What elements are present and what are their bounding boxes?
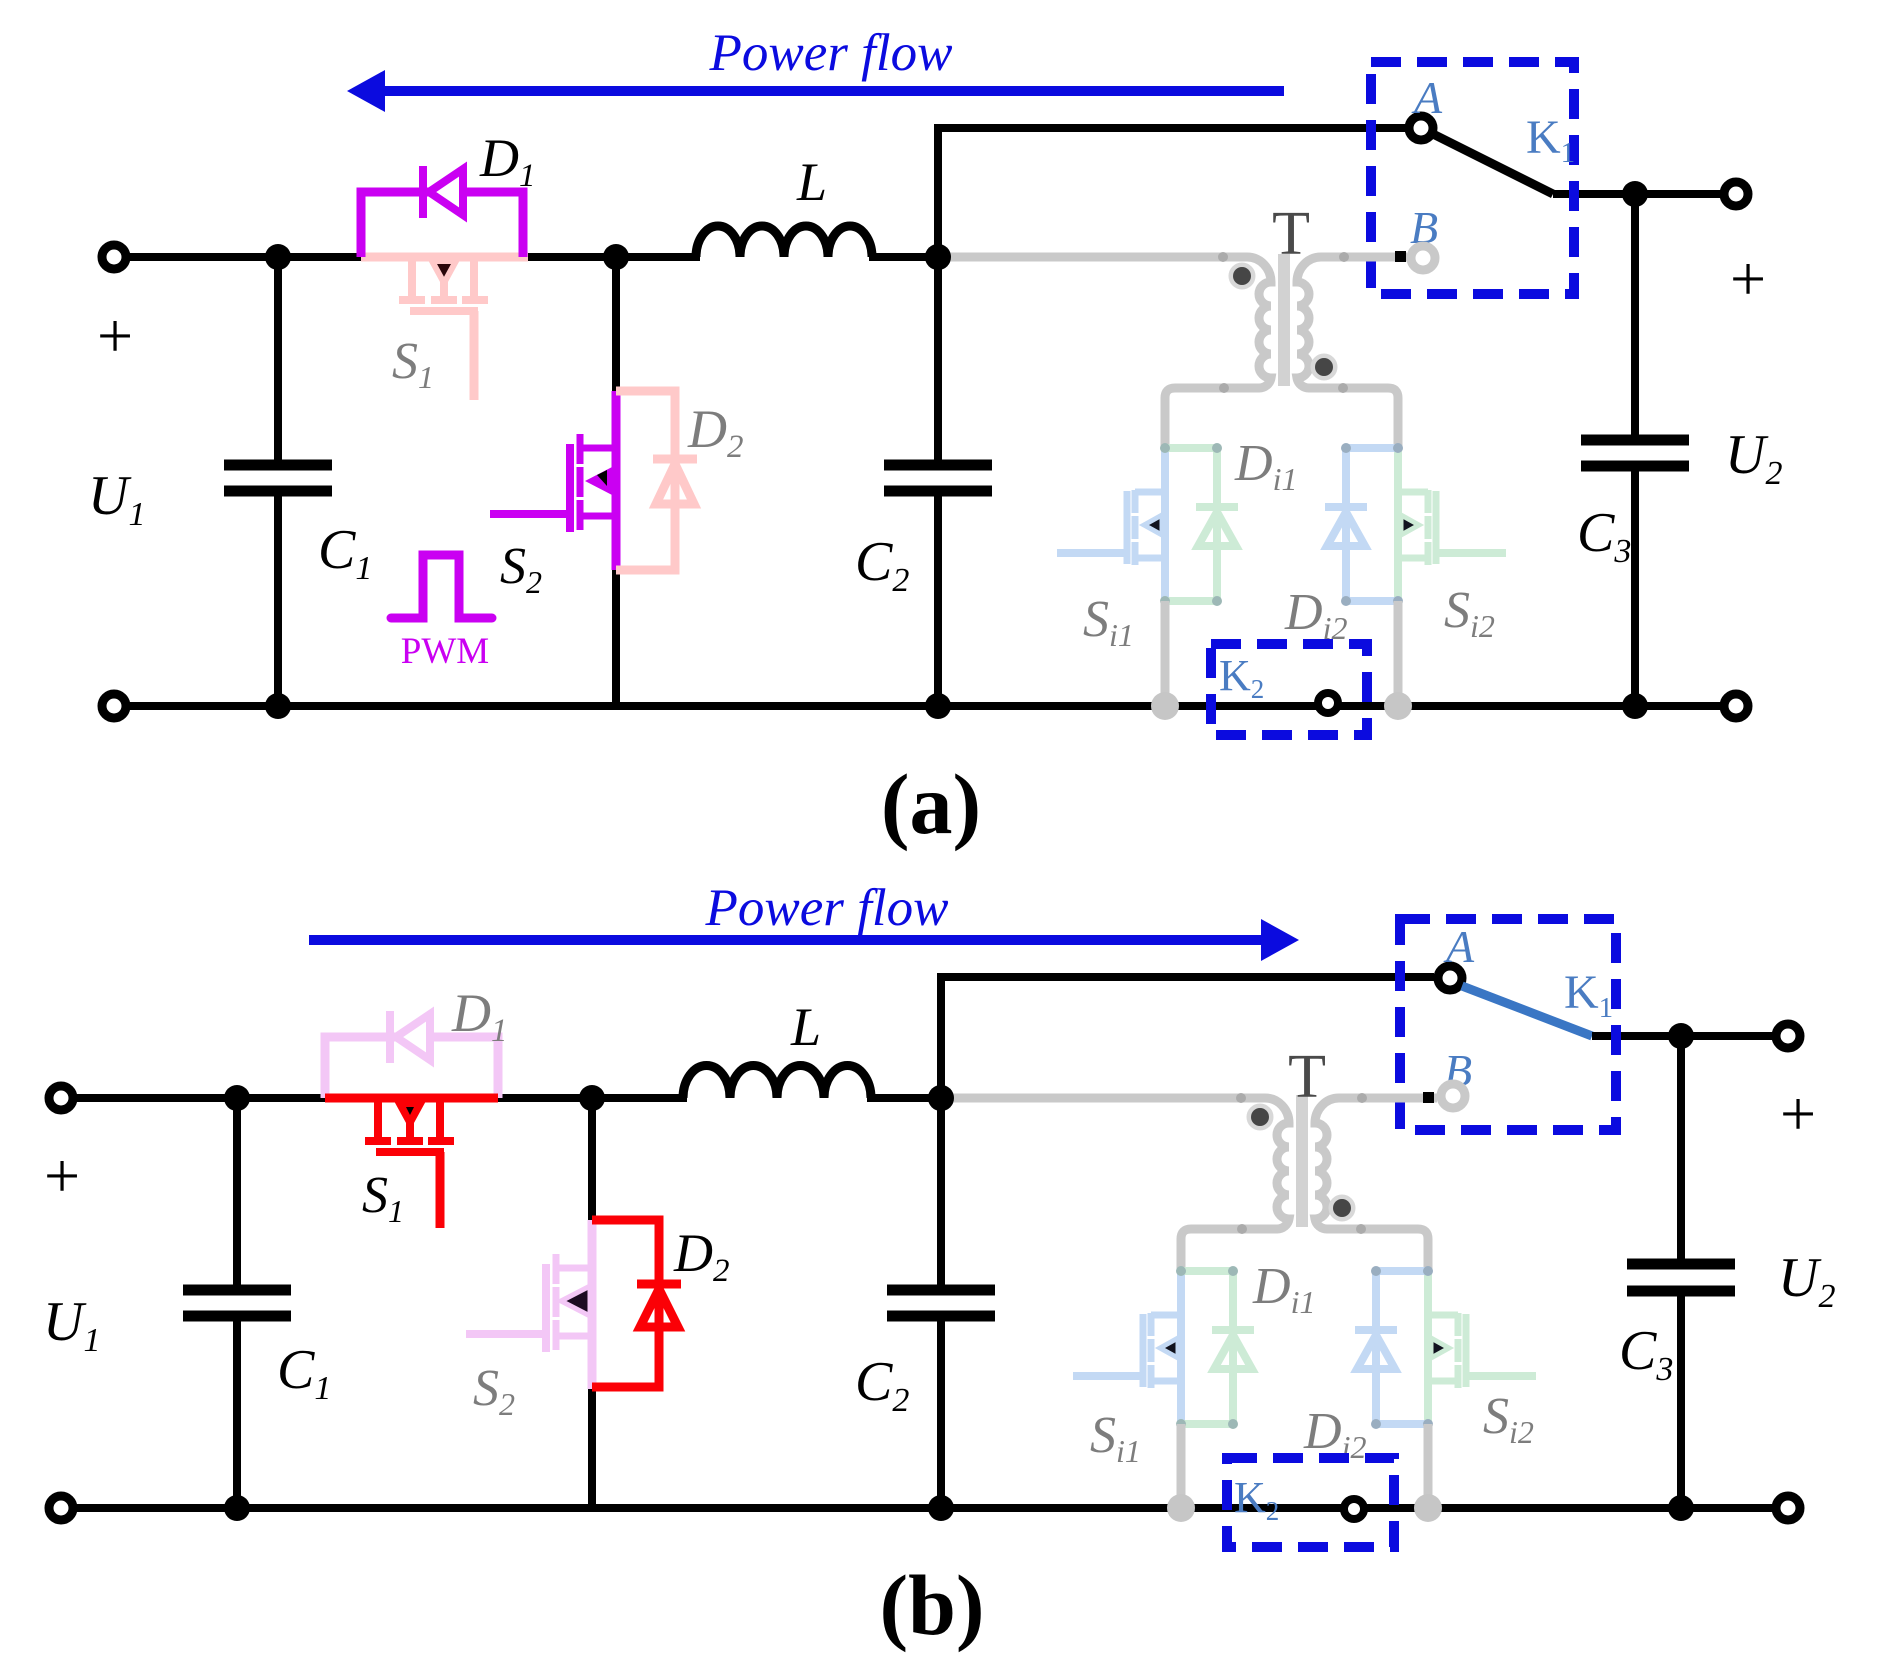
svg-text:L: L [796,152,827,212]
svg-text:+: + [97,300,133,371]
svg-text:A: A [1443,921,1475,972]
svg-text:L: L [790,997,821,1057]
svg-text:Power flow: Power flow [709,24,953,82]
svg-text:T: T [1288,1043,1326,1111]
svg-text:A: A [1411,72,1443,123]
svg-text:Power flow: Power flow [705,879,949,937]
svg-text:+: + [44,1140,80,1211]
svg-text:+: + [1780,1078,1816,1149]
svg-text:T: T [1272,200,1310,268]
svg-text:+: + [1730,243,1766,314]
svg-text:(b): (b) [879,1557,984,1653]
svg-text:PWM: PWM [401,631,489,672]
svg-text:(a): (a) [881,756,981,852]
